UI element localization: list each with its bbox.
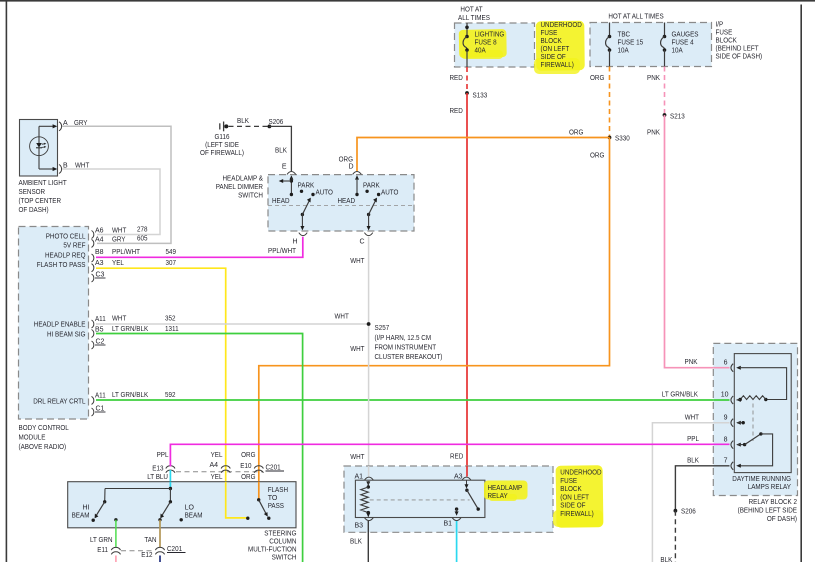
label DAYTIME RUNNING LAMPS RELAY xyxy=(732,476,791,491)
terminal B3 xyxy=(355,518,374,530)
wire WHT dimmer C to S257 to relay A1 xyxy=(350,237,368,477)
svg-text:E13: E13 xyxy=(152,466,163,473)
label HEADLAMP & PANEL DIMMER SWITCH xyxy=(216,176,264,200)
photocell symbol inside sensor xyxy=(30,126,49,169)
svg-text:BEAM: BEAM xyxy=(185,513,203,520)
svg-text:5V REF: 5V REF xyxy=(63,243,85,250)
svg-text:FLASH TO PASS: FLASH TO PASS xyxy=(37,262,86,269)
svg-text:STEERING: STEERING xyxy=(264,531,296,538)
svg-text:S330: S330 xyxy=(615,136,630,143)
svg-text:DAYTIME RUNNING: DAYTIME RUNNING xyxy=(732,476,791,483)
svg-text:(ON LEFT: (ON LEFT xyxy=(541,46,570,53)
BCM pin B8 xyxy=(92,249,177,262)
BCM pin A11 (headlp enable) xyxy=(92,316,176,329)
wire ORG inside multi-function switch xyxy=(258,482,260,500)
svg-text:SIDE OF: SIDE OF xyxy=(541,54,566,61)
terminal E13 xyxy=(147,452,175,481)
svg-text:HI: HI xyxy=(83,505,90,512)
svg-text:TBC: TBC xyxy=(618,32,631,39)
svg-text:FROM INSTRUMENT: FROM INSTRUMENT xyxy=(375,345,437,352)
wire YEL 307 BCM A3 to C201 A4 and flash-to-pass xyxy=(96,268,248,518)
svg-text:ORG: ORG xyxy=(590,153,604,160)
svg-text:PHOTO CELL: PHOTO CELL xyxy=(46,234,86,241)
svg-text:C2: C2 xyxy=(96,339,105,346)
BCM connector C2 xyxy=(92,339,106,350)
headlamp relay actuator (dashed) xyxy=(370,499,470,501)
svg-text:6: 6 xyxy=(724,360,728,367)
connector C201 row (E11 E12) xyxy=(121,546,186,553)
label UNDERHOOD FUSE BLOCK (ON LEFT SIDE OF FIREWALL) bottom xyxy=(560,470,601,519)
svg-text:C: C xyxy=(359,239,364,246)
svg-text:UNDERHOOD: UNDERHOOD xyxy=(541,22,582,29)
fuse F8: LIGHTING FUSE 8 40A xyxy=(463,23,504,67)
svg-text:D: D xyxy=(348,164,353,171)
hi beam switch xyxy=(72,489,118,522)
svg-text:S133: S133 xyxy=(473,93,488,100)
wire RED stub to relay A3 xyxy=(466,466,468,477)
svg-text:FUSE 15: FUSE 15 xyxy=(618,40,644,47)
headlamp relay (inner box) xyxy=(355,480,485,517)
svg-text:ORG: ORG xyxy=(241,452,255,459)
svg-text:UNDERHOOD: UNDERHOOD xyxy=(560,470,601,477)
svg-text:BLK: BLK xyxy=(660,557,672,562)
svg-text:(LEFT SIDE: (LEFT SIDE xyxy=(205,142,239,149)
wire BLK S206 down off page (dashed) xyxy=(660,511,675,564)
label AMBIENT LIGHT SENSOR (TOP CENTER OF DASH) xyxy=(19,180,68,214)
svg-text:TO: TO xyxy=(268,495,278,502)
fuse GAUGES FUSE 4 10A xyxy=(661,23,699,67)
wire TAN lo beam contact to E12 xyxy=(144,520,160,548)
svg-text:RED: RED xyxy=(450,75,463,82)
wire BLK relay B3 down off page xyxy=(350,521,368,562)
svg-text:A4: A4 xyxy=(95,236,104,243)
svg-text:HEADLP REQ: HEADLP REQ xyxy=(45,253,86,260)
svg-text:BEAM: BEAM xyxy=(72,513,90,520)
svg-text:10A: 10A xyxy=(672,48,683,55)
svg-text:SWITCH: SWITCH xyxy=(272,555,297,562)
terminal E11 xyxy=(97,547,120,554)
underhood fuse block (box around fuse 8) xyxy=(455,23,535,67)
svg-text:HEAD: HEAD xyxy=(272,198,290,205)
wire WHT DRL relay pin 9 down off page xyxy=(652,415,729,563)
label I/P FUSE BLOCK (BEHIND LEFT SIDE OF DASH) xyxy=(716,22,763,61)
ground G116 xyxy=(200,122,244,158)
fuse TBC FUSE 15 10A xyxy=(606,23,644,67)
svg-text:E: E xyxy=(282,164,287,171)
wire PNK stub to DRL relay pin 6 xyxy=(713,367,729,369)
wire PNK below E11 off page xyxy=(115,556,117,563)
svg-text:C201: C201 xyxy=(266,465,281,472)
svg-text:BLOCK: BLOCK xyxy=(541,38,563,45)
svg-text:LO: LO xyxy=(185,505,195,512)
svg-text:WHT: WHT xyxy=(350,346,365,353)
wire PPL/WHT 549 BCM B8 to dimmer H xyxy=(96,237,303,257)
i/p fuse block (box) xyxy=(590,23,712,67)
BCM internal labels xyxy=(33,234,86,406)
sensor pin A xyxy=(39,120,88,131)
svg-text:E10: E10 xyxy=(240,463,251,470)
svg-text:A4: A4 xyxy=(209,462,218,469)
terminal H xyxy=(292,233,307,246)
svg-text:FLASH: FLASH xyxy=(268,487,288,494)
svg-text:OF DASH): OF DASH) xyxy=(767,516,797,523)
svg-text:WHT: WHT xyxy=(112,228,127,235)
svg-text:PPL: PPL xyxy=(687,436,699,443)
wire WHT 352 BCM A11 to S257 xyxy=(96,314,369,325)
svg-text:PARK: PARK xyxy=(298,182,315,189)
svg-text:YEL: YEL xyxy=(211,452,223,459)
DRL relay coil K2 xyxy=(736,366,786,402)
svg-text:PPL: PPL xyxy=(157,452,169,459)
svg-text:WHT: WHT xyxy=(350,454,365,461)
BCM connector C1 xyxy=(92,406,106,417)
svg-text:PPL/WHT: PPL/WHT xyxy=(112,249,141,256)
page frame right border xyxy=(800,5,802,563)
svg-text:HEAD: HEAD xyxy=(338,198,356,205)
svg-text:OF DASH): OF DASH) xyxy=(19,207,49,214)
svg-text:9: 9 xyxy=(724,415,728,422)
svg-text:E11: E11 xyxy=(97,547,108,554)
svg-text:10: 10 xyxy=(721,392,729,399)
pin 10 xyxy=(721,392,733,405)
label ORG at terminal D xyxy=(339,157,353,164)
wire RED S133 to headlamp relay A3 xyxy=(450,93,468,477)
svg-text:LAMPS RELAY: LAMPS RELAY xyxy=(748,484,792,491)
svg-text:FUSE 4: FUSE 4 xyxy=(672,40,694,47)
svg-text:40A: 40A xyxy=(475,48,486,55)
svg-text:BLOCK: BLOCK xyxy=(560,486,582,493)
svg-text:E12: E12 xyxy=(141,552,152,559)
svg-text:A3: A3 xyxy=(95,260,104,267)
svg-text:H: H xyxy=(292,239,297,246)
svg-text:RED: RED xyxy=(450,108,463,115)
ambient light sensor U1 (box) xyxy=(20,120,58,177)
svg-text:FIREWALL): FIREWALL) xyxy=(541,62,574,69)
svg-text:LT GRN/BLK: LT GRN/BLK xyxy=(112,326,148,333)
svg-text:WHT: WHT xyxy=(335,314,350,321)
BCM pin B5 xyxy=(92,326,179,338)
headlamp & panel dimmer switch (box) xyxy=(268,175,414,231)
svg-text:352: 352 xyxy=(165,316,176,323)
svg-text:AMBIENT LIGHT: AMBIENT LIGHT xyxy=(19,180,68,187)
splice S206 (lower) xyxy=(674,509,696,516)
svg-text:RELAY BLOCK 2: RELAY BLOCK 2 xyxy=(749,499,797,506)
svg-text:A11: A11 xyxy=(95,316,106,323)
label STEERING COLUMN MULTI-FUCTION SWITCH xyxy=(248,531,297,562)
BCM connector C3 xyxy=(92,272,106,283)
svg-text:(ABOVE RADIO): (ABOVE RADIO) xyxy=(19,444,67,451)
svg-text:DRL RELAY CRTL: DRL RELAY CRTL xyxy=(33,399,85,406)
BCM pin A4 xyxy=(92,235,148,247)
svg-text:A11: A11 xyxy=(95,393,106,400)
svg-text:TAN: TAN xyxy=(144,537,156,544)
wire ORG TBC fuse to S330 (dashed) xyxy=(590,67,610,138)
DRL relay switch contacts xyxy=(736,421,772,468)
svg-text:LT GRN/BLK: LT GRN/BLK xyxy=(662,392,698,399)
wire RED fuse8 to S133 (dashed) xyxy=(450,67,468,93)
wire LT GRN/BLK 592 BCM A11 to DRL relay pin 10 xyxy=(96,392,730,401)
svg-text:549: 549 xyxy=(166,249,177,256)
pin 6 xyxy=(724,360,734,372)
svg-text:HEADLAMP: HEADLAMP xyxy=(488,485,523,492)
pin 7 xyxy=(724,458,734,470)
relay block 2 (box around DRL relay) xyxy=(713,343,797,495)
svg-text:MODULE: MODULE xyxy=(19,435,46,442)
wire BLK G116 to S206 (dashed) xyxy=(229,118,270,126)
svg-text:C201: C201 xyxy=(167,546,182,553)
svg-text:RELAY: RELAY xyxy=(488,493,508,500)
terminal A4 xyxy=(209,452,230,481)
svg-text:I/P: I/P xyxy=(716,22,724,29)
svg-text:GAUGES: GAUGES xyxy=(672,32,699,39)
sensor pin B xyxy=(39,163,90,174)
svg-text:GRY: GRY xyxy=(112,236,126,243)
svg-text:YEL: YEL xyxy=(211,474,223,481)
svg-text:AUTO: AUTO xyxy=(381,189,399,196)
svg-text:605: 605 xyxy=(137,235,148,242)
svg-text:PNK: PNK xyxy=(647,75,660,82)
svg-text:8: 8 xyxy=(724,437,728,444)
svg-text:10A: 10A xyxy=(618,48,629,55)
wire ORG S330 to dimmer switch D xyxy=(357,130,610,172)
terminal C xyxy=(359,233,372,246)
svg-text:PANEL DIMMER: PANEL DIMMER xyxy=(216,184,263,191)
svg-text:FIREWALL): FIREWALL) xyxy=(560,511,593,518)
svg-text:7: 7 xyxy=(724,458,728,465)
svg-text:FUSE 8: FUSE 8 xyxy=(475,40,497,47)
splice S213 xyxy=(663,113,685,120)
terminal E xyxy=(282,164,296,175)
wire LT BLU relay B1 down off page xyxy=(456,521,458,562)
label HEADLAMP RELAY xyxy=(488,485,523,500)
terminal E12 xyxy=(141,547,164,559)
svg-text:ORG: ORG xyxy=(590,75,604,82)
highlight over UNDERHOOD FUSE BLOCK (bottom) xyxy=(553,465,603,528)
splice S133 xyxy=(465,91,487,99)
svg-text:(TOP CENTER: (TOP CENTER xyxy=(19,198,62,205)
svg-text:B3: B3 xyxy=(355,523,364,530)
svg-text:CLUSTER BREAKOUT): CLUSTER BREAKOUT) xyxy=(375,354,443,361)
steering column multi-function switch (box) xyxy=(68,482,296,528)
svg-text:HEADLP ENABLE: HEADLP ENABLE xyxy=(34,322,86,329)
wire LT GRN/BLK 1311 BCM B5 (hi beam sig) down off page xyxy=(96,334,303,563)
svg-text:HI BEAM SIG: HI BEAM SIG xyxy=(47,332,86,339)
svg-text:WHT: WHT xyxy=(350,258,365,265)
svg-text:(BEHIND LEFT SIDE: (BEHIND LEFT SIDE xyxy=(738,508,798,515)
svg-text:B5: B5 xyxy=(95,327,104,334)
svg-text:A6: A6 xyxy=(95,228,104,235)
svg-text:(I/P HARN, 12.5 CM: (I/P HARN, 12.5 CM xyxy=(375,335,432,342)
svg-text:WHT: WHT xyxy=(685,415,700,422)
terminal B1 xyxy=(444,518,462,528)
pin 8 xyxy=(724,437,734,449)
page frame left border xyxy=(6,0,8,562)
headlamp relay switch contacts xyxy=(455,480,480,516)
svg-text:S206: S206 xyxy=(681,509,696,516)
svg-text:FUSE: FUSE xyxy=(716,30,733,37)
dimmer switch section 2 (D to C) xyxy=(338,175,399,230)
wire WHT stub to relay A1 xyxy=(368,466,370,477)
svg-text:A3: A3 xyxy=(454,474,463,481)
wire GRY sensor A to BCM A4 xyxy=(62,126,171,243)
svg-text:BLOCK: BLOCK xyxy=(716,38,738,45)
svg-text:1311: 1311 xyxy=(165,326,179,333)
underhood fuse block (box around headlamp relay) xyxy=(344,466,553,532)
wire PNK S213 to DRL relay pin 6 xyxy=(647,115,730,368)
wire DK BLU below E12 off page xyxy=(159,556,161,563)
svg-text:COLUMN: COLUMN xyxy=(269,539,296,546)
wire PNK gauges fuse to S213 (dashed) xyxy=(647,67,665,116)
svg-text:HEADLAMP &: HEADLAMP & xyxy=(223,176,264,183)
svg-text:BLK: BLK xyxy=(350,539,362,546)
svg-text:MULTI-FUCTION: MULTI-FUCTION xyxy=(248,547,297,554)
svg-text:BODY CONTROL: BODY CONTROL xyxy=(19,425,69,432)
svg-text:592: 592 xyxy=(165,392,176,399)
label HOT AT ALL TIMES (i/p fuse block) xyxy=(608,14,664,21)
svg-text:278: 278 xyxy=(137,227,148,234)
splice S257 xyxy=(367,322,443,361)
svg-text:ORG: ORG xyxy=(569,130,583,137)
node LT BLU junction xyxy=(105,487,172,490)
svg-text:ALL TIMES: ALL TIMES xyxy=(458,15,490,22)
svg-text:A1: A1 xyxy=(355,474,364,481)
svg-text:SIDE OF DASH): SIDE OF DASH) xyxy=(716,54,763,61)
svg-text:G116: G116 xyxy=(215,134,230,141)
svg-text:SENSOR: SENSOR xyxy=(19,189,46,196)
svg-text:B1: B1 xyxy=(444,521,453,528)
svg-text:307: 307 xyxy=(166,260,177,267)
wire BLK DRL relay pin 7 to S206 xyxy=(675,458,729,511)
svg-text:YEL: YEL xyxy=(112,260,124,267)
terminal D xyxy=(348,164,361,175)
wire ORG S330 down-left to C201 E10 and flash-to-pass switch xyxy=(259,138,610,500)
daytime running lamps relay (inner box) xyxy=(734,354,791,473)
terminal A3 xyxy=(454,474,471,481)
svg-text:PASS: PASS xyxy=(268,503,285,510)
svg-text:OF FIREWALL): OF FIREWALL) xyxy=(200,150,244,157)
svg-text:LT GRN: LT GRN xyxy=(90,537,113,544)
wire LT GRN hi beam contact to E11 xyxy=(90,520,116,548)
wire BLK S206 to dimmer switch E xyxy=(269,126,291,171)
svg-text:RED: RED xyxy=(450,454,463,461)
svg-text:BLK: BLK xyxy=(275,148,287,155)
flash to pass switch xyxy=(246,487,288,520)
connector C201 row (E13 A4 E10) xyxy=(176,465,284,472)
svg-text:WHT: WHT xyxy=(112,316,127,323)
svg-text:PPL/WHT: PPL/WHT xyxy=(268,248,297,255)
svg-text:ORG: ORG xyxy=(339,157,353,164)
wire LT GRN/BLK stub to DRL relay pin 10 xyxy=(713,399,729,401)
highlight over LIGHTING FUSE 8 40A xyxy=(459,29,507,59)
splice S330 xyxy=(608,136,630,143)
svg-text:C1: C1 xyxy=(96,406,105,413)
svg-text:C3: C3 xyxy=(96,272,105,279)
svg-text:S213: S213 xyxy=(670,114,685,121)
BCM pin A11 (drl relay crtl) xyxy=(92,392,176,404)
svg-text:FUSE: FUSE xyxy=(541,30,558,37)
svg-text:S257: S257 xyxy=(375,325,390,332)
svg-text:B8: B8 xyxy=(95,249,104,256)
wire PPL DRL relay pin 8 to C201 E13 xyxy=(170,436,729,467)
wire LT BLU inside multi-function switch xyxy=(169,482,171,489)
svg-text:S206: S206 xyxy=(269,119,284,126)
body control module (dashed box) xyxy=(19,227,89,420)
splice S206 (firewall) xyxy=(268,119,284,128)
svg-text:FUSE: FUSE xyxy=(560,478,577,485)
svg-text:SWITCH: SWITCH xyxy=(238,193,263,200)
svg-text:PARK: PARK xyxy=(363,182,380,189)
wire WHT sensor B to BCM A6 xyxy=(62,169,160,235)
svg-text:PNK: PNK xyxy=(685,359,698,366)
label RELAY BLOCK 2 (BEHIND LEFT SIDE OF DASH) xyxy=(738,499,798,523)
DRL relay actuator (dashed) xyxy=(752,404,754,442)
label BODY CONTROL MODULE (ABOVE RADIO) xyxy=(19,425,69,451)
pin 9 xyxy=(724,415,734,427)
highlight over HEADLAMP RELAY xyxy=(484,481,528,502)
terminal E10 xyxy=(240,452,263,481)
headlamp relay coil K1 xyxy=(361,481,371,517)
dimmer switch section 1 (E to H) xyxy=(272,175,333,230)
svg-text:AUTO: AUTO xyxy=(316,189,334,196)
svg-text:ORG: ORG xyxy=(241,474,255,481)
lo beam switch xyxy=(158,489,202,522)
wire YEL inside multi-function switch xyxy=(226,482,248,518)
BCM pin A3 xyxy=(92,260,177,272)
svg-text:BLK: BLK xyxy=(237,118,249,125)
svg-text:HOT AT ALL TIMES: HOT AT ALL TIMES xyxy=(608,14,664,21)
terminal A1 xyxy=(355,474,374,481)
wire LT BLU E13 into multifunction switch xyxy=(169,470,171,489)
svg-text:PNK: PNK xyxy=(647,130,660,137)
svg-text:(BEHIND LEFT: (BEHIND LEFT xyxy=(716,46,760,53)
label UNDERHOOD FUSE BLOCK (ON LEFT SIDE OF FIREWALL) top xyxy=(534,21,585,74)
label HOT AT ALL TIMES (left fuse block) xyxy=(458,7,490,23)
page frame top border xyxy=(0,0,815,2)
svg-text:LT GRN/BLK: LT GRN/BLK xyxy=(112,392,148,399)
svg-text:BLK: BLK xyxy=(687,458,699,465)
BCM pin A6 xyxy=(92,227,148,239)
svg-text:LT BLU: LT BLU xyxy=(147,474,168,481)
svg-text:(ON LEFT: (ON LEFT xyxy=(560,494,589,501)
svg-text:LIGHTING: LIGHTING xyxy=(475,32,505,39)
svg-text:HOT AT: HOT AT xyxy=(460,7,483,14)
svg-text:SIDE OF: SIDE OF xyxy=(560,503,585,510)
